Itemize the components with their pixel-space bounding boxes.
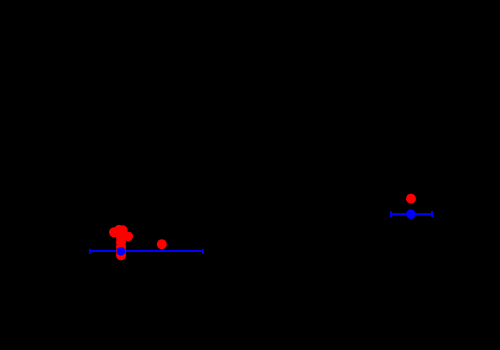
red scatter point I (lone) <box>157 239 167 249</box>
errorbar E1 left cap <box>89 249 91 254</box>
errorbar E2 horizontal line <box>391 213 432 215</box>
blue marker M1 (left errorbar) <box>117 247 126 256</box>
red scatter point J (right group) <box>406 194 416 204</box>
red scatter point E <box>116 233 126 243</box>
red scatter point G <box>116 242 126 252</box>
errorbar E2 left cap <box>390 211 392 217</box>
red scatter point F <box>116 237 126 247</box>
red scatter point A <box>109 227 119 237</box>
errorbar E1 right cap <box>202 249 204 254</box>
blue marker M2 (right errorbar) <box>406 209 416 219</box>
errorbar E1 horizontal line <box>90 250 203 252</box>
red scatter point D <box>124 232 134 242</box>
red scatter point C <box>118 225 128 235</box>
errorbar E2 right cap <box>431 211 433 217</box>
red scatter point H <box>116 246 126 256</box>
red scatter point H2 <box>116 250 126 260</box>
red scatter point B <box>114 225 124 235</box>
